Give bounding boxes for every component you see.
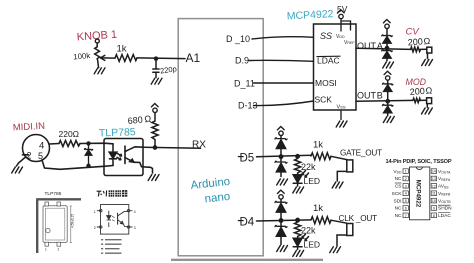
svg-text:MOSI: MOSI xyxy=(315,78,337,88)
svg-text:22k: 22k xyxy=(301,162,316,172)
svg-text:SHDN: SHDN xyxy=(438,206,452,212)
svg-text:SCK: SCK xyxy=(392,191,403,197)
svg-text:5: 5 xyxy=(405,199,407,203)
svg-text:12: 12 xyxy=(432,184,436,188)
svg-text:13: 13 xyxy=(432,177,436,181)
svg-text:2: 2 xyxy=(405,177,407,181)
svg-text:VOUTB: VOUTB xyxy=(438,198,451,204)
svg-text:200 Ω: 200 Ω xyxy=(407,36,430,48)
svg-text:AVSS: AVSS xyxy=(438,184,449,190)
svg-text:nano: nano xyxy=(204,191,231,206)
svg-text:1k: 1k xyxy=(313,140,323,151)
svg-text:1: 1 xyxy=(45,248,47,252)
svg-text:VREF: VREF xyxy=(344,40,355,46)
svg-text:14: 14 xyxy=(432,170,436,174)
svg-text:11: 11 xyxy=(432,192,436,196)
svg-text:680 Ω: 680 Ω xyxy=(127,114,152,126)
svg-text:NC: NC xyxy=(395,206,402,212)
svg-text:MIDI.IN: MIDI.IN xyxy=(13,121,46,134)
svg-text:9: 9 xyxy=(433,207,435,211)
svg-text:D4: D4 xyxy=(240,217,255,229)
svg-text:MCP4922: MCP4922 xyxy=(287,8,334,22)
svg-text:1k: 1k xyxy=(117,44,127,55)
svg-text:VREFB: VREFB xyxy=(438,191,451,197)
svg-text:6: 6 xyxy=(405,207,407,211)
svg-text:LDAC: LDAC xyxy=(438,213,451,219)
svg-text:7: 7 xyxy=(405,214,407,218)
svg-text:KNOB 1: KNOB 1 xyxy=(76,29,117,44)
svg-text:14-Pin PDIP, SOIC, TSSOP: 14-Pin PDIP, SOIC, TSSOP xyxy=(386,159,452,165)
svg-text:4: 4 xyxy=(405,192,407,196)
svg-text:200 Ω: 200 Ω xyxy=(409,85,432,97)
svg-text:MCP4922: MCP4922 xyxy=(414,180,421,208)
svg-text:4: 4 xyxy=(134,210,136,214)
svg-text:1: 1 xyxy=(405,170,407,174)
svg-text:VDD: VDD xyxy=(393,169,402,175)
svg-text:100k: 100k xyxy=(73,51,91,61)
svg-text:LED: LED xyxy=(304,240,321,250)
svg-text:8: 8 xyxy=(433,214,435,218)
svg-text:5: 5 xyxy=(38,151,43,161)
svg-text:VDD: VDD xyxy=(336,34,345,40)
svg-text:10: 10 xyxy=(432,199,436,203)
svg-text:2: 2 xyxy=(27,151,32,161)
svg-text:CS: CS xyxy=(395,184,402,190)
svg-text:2: 2 xyxy=(58,248,60,252)
svg-text:SCK: SCK xyxy=(315,95,333,105)
svg-text:Arduino: Arduino xyxy=(190,176,231,192)
svg-text:D_11: D_11 xyxy=(234,79,255,89)
svg-text:NC: NC xyxy=(395,213,402,219)
svg-text:4: 4 xyxy=(39,141,44,152)
svg-text:D _10: D _10 xyxy=(226,34,250,44)
svg-text:2: 2 xyxy=(94,226,96,230)
svg-text:TLP785: TLP785 xyxy=(45,191,62,197)
svg-text:LED: LED xyxy=(304,176,321,186)
svg-text:3: 3 xyxy=(134,226,136,230)
svg-text:NC: NC xyxy=(395,176,402,182)
svg-text:VREFA: VREFA xyxy=(438,176,451,182)
svg-text:VOUTA: VOUTA xyxy=(438,169,451,175)
svg-text:220p: 220p xyxy=(160,64,178,75)
svg-text:CLK _OUT: CLK _OUT xyxy=(339,214,378,223)
svg-text:D.9: D.9 xyxy=(235,56,249,66)
svg-text:SS: SS xyxy=(320,31,332,41)
svg-text:1: 1 xyxy=(94,210,96,214)
svg-text:1k: 1k xyxy=(313,203,323,214)
svg-text:OUT B: OUT B xyxy=(357,91,383,101)
svg-text:GATE_OUT: GATE_OUT xyxy=(340,148,382,157)
svg-text:A1: A1 xyxy=(186,51,201,65)
svg-text:SDI: SDI xyxy=(394,198,402,204)
svg-text:D5: D5 xyxy=(240,153,255,165)
svg-text:22k: 22k xyxy=(301,226,316,236)
svg-text:4.58±0.25: 4.58±0.25 xyxy=(71,214,75,228)
svg-text:3: 3 xyxy=(405,184,407,188)
svg-text:220Ω: 220Ω xyxy=(59,129,80,139)
svg-text:TLP785: TLP785 xyxy=(99,126,136,139)
